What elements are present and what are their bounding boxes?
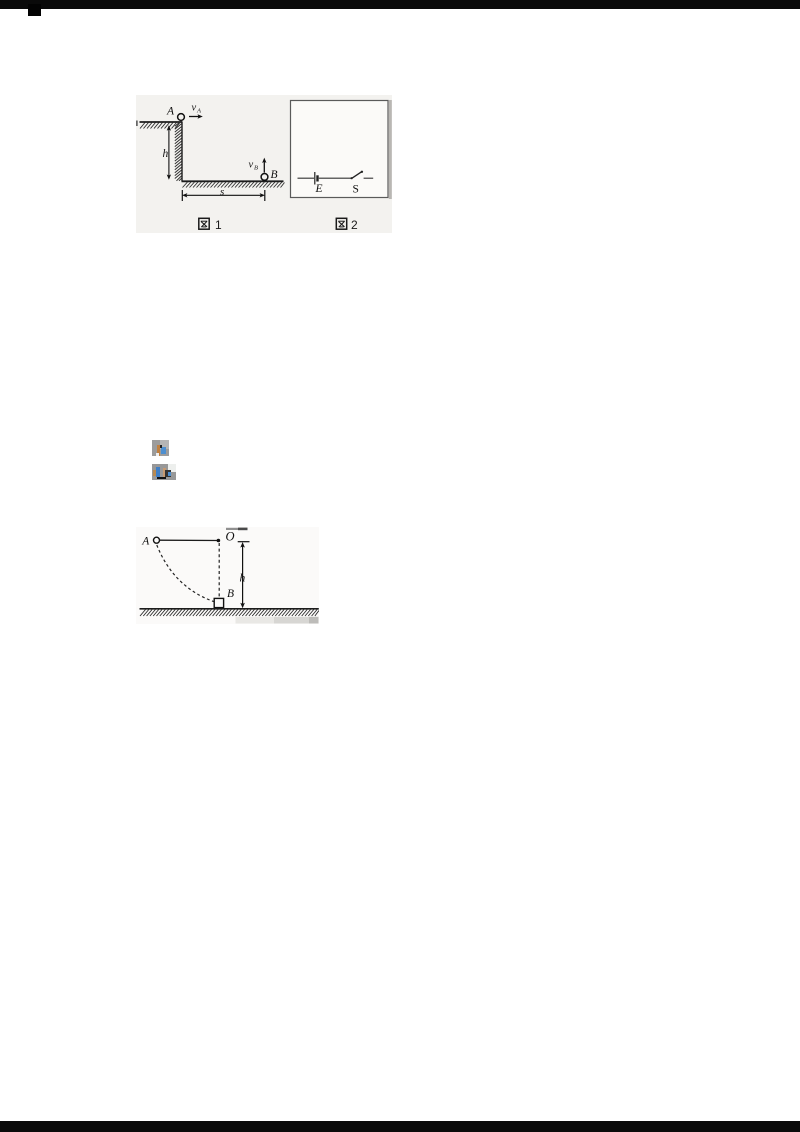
svg-text:v: v — [192, 103, 197, 114]
s dimension arrow — [185, 194, 263, 196]
h arrow top tick — [238, 541, 250, 543]
svg-text:A: A — [166, 106, 175, 118]
figure block 3 (swing diagram scanned image) — [136, 527, 319, 624]
wire: left segment to battery E — [298, 177, 315, 179]
switch S: blade — [352, 172, 362, 179]
dashed arc trajectory — [157, 545, 214, 602]
rod line A-O — [160, 539, 219, 541]
small mark 1: coloured glyph bits — [157, 445, 160, 456]
svg-text:s: s — [220, 186, 224, 198]
small mark 1: white patch — [152, 432, 176, 440]
wire: right segment from switch S — [364, 177, 374, 179]
lower ground line — [182, 180, 284, 182]
upper ground line — [140, 121, 183, 123]
svg-text:O: O — [226, 530, 235, 544]
small mark 1: grey patch — [152, 440, 169, 456]
node B: ball — [261, 174, 268, 181]
wire: battery E to switch S — [319, 177, 351, 179]
grey smudge patches over right hatch — [236, 617, 276, 624]
small mark 2: glyph bits — [153, 470, 156, 476]
lower ground hatching — [183, 182, 285, 188]
svg-text:A: A — [196, 108, 201, 115]
cliff wall vertical line — [181, 122, 183, 182]
block B square — [214, 598, 223, 607]
vA arrow — [189, 116, 200, 118]
svg-text:1: 1 — [215, 218, 222, 232]
h dimension arrow — [168, 127, 170, 178]
svg-text:A: A — [141, 535, 150, 547]
cliff wall hatching — [175, 121, 182, 181]
grey streak right of box — [389, 100, 392, 199]
ground line — [140, 608, 319, 610]
h dimension arrow — [242, 544, 244, 607]
top-left black square — [28, 4, 41, 16]
ring at A — [154, 537, 160, 543]
left edge tick — [136, 121, 137, 127]
dashed vertical O-B — [218, 543, 220, 600]
battery E: long plate — [314, 172, 316, 185]
upper ground hatching — [140, 123, 180, 129]
svg-text:h: h — [163, 148, 169, 160]
svg-text:B: B — [227, 588, 234, 600]
top black bar — [0, 0, 800, 9]
svg-text:S: S — [353, 184, 359, 196]
svg-text:2: 2 — [351, 218, 358, 232]
svg-text:B: B — [271, 169, 278, 181]
node A: ball — [178, 114, 185, 121]
bottom black bar — [0, 1121, 800, 1132]
ground hatching left (dark) — [140, 610, 235, 617]
svg-text:v: v — [249, 160, 254, 171]
svg-text:E: E — [315, 183, 323, 195]
battery E: short plate — [316, 175, 318, 181]
small mark 2: grey patch with 16. — [152, 464, 176, 480]
vB arrow — [263, 161, 265, 173]
svg-text:h: h — [240, 573, 246, 585]
top edge smudge — [226, 528, 238, 530]
fig2 circuit box — [291, 101, 389, 198]
switch S: pivot — [351, 177, 353, 179]
caption 图 2 — [336, 218, 358, 232]
ground hatching right (faded) — [232, 610, 319, 617]
svg-text:B: B — [254, 165, 258, 172]
figure block 1 (图1 + 图2 scanned image) — [136, 91, 392, 233]
caption 图 1 — [199, 218, 222, 232]
pivot dot O — [217, 539, 221, 543]
